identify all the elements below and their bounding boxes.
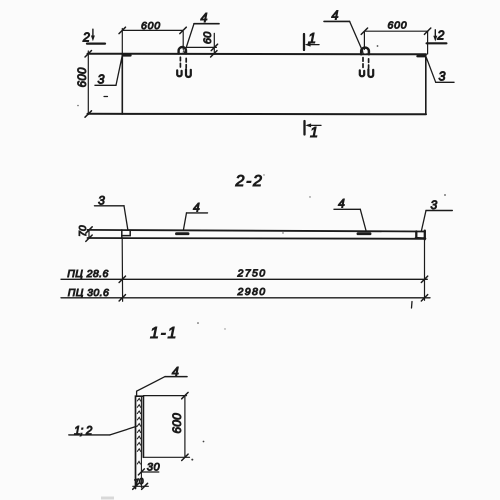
svg-text:2980: 2980 [237,286,267,298]
loop L2 hidden legs (dashed) [362,58,364,68]
dim row 2750 [61,278,427,280]
svg-text:ПЦ 30.6: ПЦ 30.6 [68,287,109,299]
dim 600 top-right horizontal [361,28,431,54]
dim row 2980 [61,297,430,299]
dim 70 thickness (section 2-2) [86,227,92,242]
bar left end [121,230,123,238]
dim 70 bottom (section 1-1) [133,485,149,487]
anchor mark 4 left (section 2-2) [177,232,189,235]
svg-text:2750: 2750 [237,268,267,280]
embedded plate mark at right corner (plan) [418,55,426,57]
lifting loop L1 (plan) [179,47,186,54]
svg-text:4: 4 [338,197,345,211]
stray specks [203,441,205,443]
dim 600 left vertical [85,51,92,118]
svg-text:600: 600 [141,20,161,32]
panel right edge (plan view) [425,54,427,114]
embedded plate mark at left corner (plan) [123,54,131,56]
panel section inner face line [140,397,142,488]
svg-text:4: 4 [201,11,208,25]
svg-text:2: 2 [82,31,90,45]
panel section outline (1-1) [136,396,144,488]
dim 600 (section 1-1) [143,392,189,460]
panel left edge (plan view) [121,54,123,114]
svg-text:600: 600 [170,413,184,434]
panel bottom edge (plan view) [88,113,427,116]
bar bottom edge (section 2-2) [88,237,426,240]
svg-text:2-2: 2-2 [235,173,264,190]
svg-text:60: 60 [202,31,214,44]
loop L1 eye (white) [180,49,183,52]
svg-text:3: 3 [439,70,446,84]
section mark 1 bottom [305,121,322,135]
svg-text:3: 3 [98,73,105,87]
loop L2 hook left [360,70,364,76]
embedded plate 3 right (section 2-2) [416,231,425,240]
concrete hatch marks (1-1) [137,398,140,464]
svg-text:1; 2: 1; 2 [74,426,93,438]
dim 60 loop offset [187,33,218,57]
section mark 1 top [304,34,319,50]
dim extension right below bar [424,239,426,300]
loop L1 hook right [186,69,191,77]
loop L2 eye (white) [363,50,367,54]
stray mark [104,96,108,98]
svg-text:600: 600 [388,20,408,32]
loop L1 hidden legs (dashed) [179,57,181,68]
dim 600 top-left horizontal [119,27,186,54]
svg-text:70: 70 [78,225,89,237]
svg-text:1-1: 1-1 [150,325,178,342]
svg-text:1: 1 [310,125,318,141]
lifting loop L2 (plan) [361,48,369,55]
bar top edge (section 2-2) [88,230,426,232]
loop L2 hook right [368,69,373,77]
loop L1 hook left [177,70,181,76]
svg-text:2: 2 [436,29,444,43]
svg-text:4: 4 [332,9,339,23]
panel top edge (plan view) [88,53,427,56]
svg-text:ПЦ 28.6: ПЦ 28.6 [67,268,108,280]
svg-text:600: 600 [77,67,89,87]
svg-text:1: 1 [308,31,316,47]
embedded plate 3 left (section 2-2) [122,230,130,235]
dim extension left below bar [121,238,123,301]
anchor mark 4 right (section 2-2) [358,232,370,235]
